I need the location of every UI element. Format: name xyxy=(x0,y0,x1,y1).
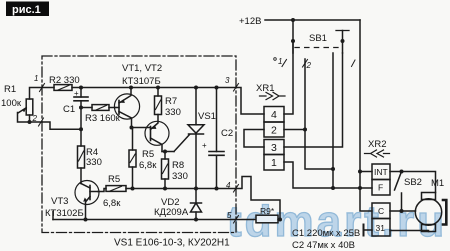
svg-text:R5: R5 xyxy=(108,174,120,185)
wire INT to SB2/M1 xyxy=(390,172,436,193)
wire pin4 to SB1 left xyxy=(284,20,293,114)
connector XR1 symbol xyxy=(260,92,286,99)
svg-text:4: 4 xyxy=(271,109,277,121)
link pin2-pin3 left xyxy=(244,130,264,148)
svg-text:C2: C2 xyxy=(221,128,233,139)
svg-text:R5: R5 xyxy=(142,149,154,160)
wire node3 to XR1 pin4 xyxy=(236,88,264,115)
svg-text:+: + xyxy=(74,89,79,98)
svg-text:+12В: +12В xyxy=(239,16,261,27)
svg-text:R3 160к: R3 160к xyxy=(85,113,121,124)
wire pin2 to wire2 xyxy=(284,129,305,131)
switch SB2 xyxy=(395,172,404,214)
svg-text:R9*: R9* xyxy=(260,206,275,216)
svg-text:C1: C1 xyxy=(63,104,75,115)
svg-text:2: 2 xyxy=(32,114,38,123)
svg-text:VT1, VT2: VT1, VT2 xyxy=(122,63,162,74)
svg-text:рис.1: рис.1 xyxy=(12,4,41,16)
svg-text:С1 220мк х 25В: С1 220мк х 25В xyxy=(292,228,360,239)
node 4 crossing tick xyxy=(234,185,239,193)
wire node2 to C1/R4 node xyxy=(42,122,81,129)
wire SB1 right to pin3 xyxy=(284,53,343,147)
svg-text:1: 1 xyxy=(271,157,277,169)
wire pin1 to XR2 F xyxy=(284,162,372,188)
stub to INT xyxy=(360,171,372,173)
svg-text:330: 330 xyxy=(165,107,181,118)
node 3 crossing tick xyxy=(234,84,239,92)
node 1 crossing tick xyxy=(40,84,45,92)
svg-text:5: 5 xyxy=(227,211,232,220)
svg-text:INT: INT xyxy=(374,167,388,177)
thyristor VS1 xyxy=(174,88,204,189)
resistor R5 6,8к (horizontal, base VT3) xyxy=(98,186,236,192)
resistor R2 330 xyxy=(54,85,81,91)
svg-text:XR2: XR2 xyxy=(368,139,386,150)
svg-text:330: 330 xyxy=(172,171,188,182)
svg-text:330: 330 xyxy=(86,157,102,168)
connector XR2 pins xyxy=(372,164,390,236)
svg-text:C: C xyxy=(378,206,384,216)
resistor R3 160к xyxy=(81,105,116,111)
svg-text:XR1: XR1 xyxy=(256,83,274,94)
svg-text:R1: R1 xyxy=(4,84,16,95)
wire 1 mark xyxy=(282,60,287,67)
enclosure dash-dot border xyxy=(42,56,236,233)
svg-text:3: 3 xyxy=(225,76,230,85)
svg-text:SB1: SB1 xyxy=(309,33,327,44)
resistor R8 330 xyxy=(162,152,169,189)
switch SB1 xyxy=(291,31,349,54)
svg-text:R7: R7 xyxy=(165,96,177,107)
svg-text:1: 1 xyxy=(34,74,38,83)
+12V down wire xyxy=(360,20,372,211)
connector XR1 pins xyxy=(264,107,284,171)
tick mark near SB1 xyxy=(352,60,356,67)
resistor R7 330 xyxy=(155,88,162,115)
+12V rail xyxy=(265,19,360,21)
svg-text:С2 47мк х 40В: С2 47мк х 40В xyxy=(292,240,355,251)
svg-text:VS1: VS1 xyxy=(198,111,216,122)
fig label xyxy=(6,2,49,17)
wire 2 vertical xyxy=(305,59,333,188)
svg-text:2: 2 xyxy=(306,61,312,70)
wire number marks xyxy=(32,57,312,220)
resistor R9 xyxy=(236,215,281,223)
transistor VT2 (PNP КТ3107Б) xyxy=(145,115,169,152)
svg-text:6,8к: 6,8к xyxy=(139,160,157,171)
node VT2 collector xyxy=(162,151,174,153)
capacitor C1 xyxy=(74,88,88,130)
svg-text:КТ3102Б: КТ3102Б xyxy=(45,208,84,219)
svg-text:6,8к: 6,8к xyxy=(103,198,121,209)
node 5 crossing tick xyxy=(234,216,239,224)
svg-text:R8: R8 xyxy=(172,160,184,171)
svg-text:1: 1 xyxy=(278,57,282,66)
svg-text:КТ3107Б: КТ3107Б xyxy=(122,76,161,87)
svg-text:КД209А: КД209А xyxy=(154,207,189,218)
watermark tdmart.ru xyxy=(227,197,447,246)
svg-text:31: 31 xyxy=(376,223,386,233)
diode VD2 КД209А xyxy=(191,189,202,220)
ground terminal bar xyxy=(365,229,372,231)
svg-text:VT3: VT3 xyxy=(51,196,68,207)
motor M1 xyxy=(415,193,446,232)
svg-text:3: 3 xyxy=(271,142,277,154)
wire node4 harness xyxy=(236,177,280,220)
wire 31 to motor bottom xyxy=(390,231,429,232)
svg-text:4: 4 xyxy=(226,181,231,190)
connector XR2 symbol xyxy=(365,150,390,157)
wire top rail xyxy=(81,87,236,89)
resistor R4 330 xyxy=(78,129,85,183)
svg-text:2: 2 xyxy=(271,125,277,137)
svg-text:+: + xyxy=(202,141,207,150)
svg-text:R2 330: R2 330 xyxy=(49,75,80,86)
resistor R1 (potentiometer 100к) xyxy=(18,88,55,125)
svg-text:SB2: SB2 xyxy=(404,177,422,188)
bottom rail wire xyxy=(53,219,236,221)
svg-text:100к: 100к xyxy=(1,98,22,109)
transistor VT1 (PNP КТ3107Б) xyxy=(114,88,139,128)
transistor VT3 (NPN КТ3102Б) xyxy=(75,181,99,220)
svg-text:M1: M1 xyxy=(431,178,444,189)
node 2 crossing tick xyxy=(39,118,44,126)
capacitor C2 xyxy=(209,88,224,189)
wire VT1 collector to VT2 base xyxy=(132,127,151,129)
svg-text:F: F xyxy=(378,183,383,193)
wire C to motor xyxy=(390,210,416,212)
svg-text:VS1 Е106-10-3, КУ202Н1: VS1 Е106-10-3, КУ202Н1 xyxy=(114,238,230,249)
resistor R5 6,8к (vertical) xyxy=(129,128,136,189)
